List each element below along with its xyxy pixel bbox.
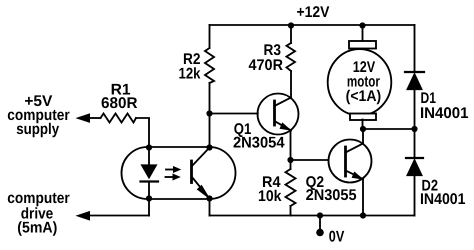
resistor R4	[286, 169, 296, 206]
wire R2 top lead	[209, 25, 211, 48]
opto phototransistor	[190, 161, 193, 183]
resistor R3	[287, 43, 296, 71]
wire R3 top lead	[290, 25, 292, 43]
wire R2 bottom to optocoupler collector	[209, 83, 211, 148]
svg-text:680R: 680R	[101, 95, 138, 112]
wire 0V terminal stub	[319, 216, 321, 232]
node 0V terminal	[316, 229, 324, 237]
node Q2 emitter on 0V rail	[360, 212, 366, 218]
wire diode node down to D2	[414, 129, 416, 158]
wire Q2 base	[291, 159, 329, 161]
LED D3	[148, 148, 150, 166]
motor M1 top brush	[349, 41, 376, 49]
wire Q2 emitter down	[362, 179, 364, 216]
wire R3 bottom to Q1 collector	[290, 71, 292, 98]
node opto collector on body	[206, 144, 212, 150]
motor M1 bottom brush	[350, 114, 376, 121]
node motor bottom junction	[360, 126, 366, 132]
wire Q1 emitter down	[290, 131, 292, 161]
svg-text:10k: 10k	[258, 188, 282, 205]
light arrow upper	[166, 169, 174, 171]
wire R4 top lead	[290, 160, 292, 169]
resistor R1	[101, 114, 137, 123]
svg-text:(5mA): (5mA)	[17, 220, 57, 237]
svg-text:supply: supply	[16, 121, 59, 138]
node D1/D2 junction	[411, 126, 417, 132]
svg-text:IN4001: IN4001	[420, 105, 469, 122]
svg-text:470R: 470R	[249, 57, 284, 74]
node LED anode on body	[146, 144, 152, 150]
svg-text:0V: 0V	[329, 229, 345, 246]
arrow +5V supply	[77, 114, 90, 122]
wire Q2 collector up	[362, 129, 364, 144]
wire computer drive line	[90, 215, 149, 217]
svg-text:2N3055: 2N3055	[306, 187, 357, 204]
optocoupler IC1 body	[122, 147, 236, 199]
node motor top junction	[359, 22, 365, 28]
wire LED cathode down	[148, 199, 150, 216]
wire R1 left lead	[90, 117, 101, 119]
svg-text:+12V: +12V	[297, 4, 331, 21]
node LED cathode on body	[146, 195, 152, 201]
light arrow lower	[166, 176, 174, 178]
diode D1	[405, 71, 424, 73]
wire 0V rail	[210, 215, 415, 217]
svg-text:(<1A): (<1A)	[346, 88, 382, 105]
transistor Q2	[329, 140, 372, 183]
node 0V stub junction	[317, 212, 323, 218]
wire motor bottom to diode node	[363, 128, 415, 130]
wire Q1 base	[210, 113, 258, 115]
wire opto emitter down to rail	[209, 199, 211, 216]
wire top +12V rail	[210, 24, 415, 26]
svg-text:12k: 12k	[179, 65, 201, 82]
node junction R2/opto/Q1-base	[206, 110, 212, 116]
node opto emitter on body	[206, 195, 212, 201]
wire R1 right lead	[136, 118, 149, 148]
motor M1 body	[328, 49, 392, 115]
wire R4 bottom lead	[290, 206, 292, 216]
node Q1 emitter / R4 / Q2 base	[287, 157, 293, 163]
transistor Q1	[258, 94, 299, 135]
svg-text:2N3054: 2N3054	[233, 134, 285, 151]
diode D2	[406, 157, 423, 159]
motor M1 top lead	[362, 25, 364, 41]
arrow computer drive	[77, 212, 90, 220]
svg-text:IN4001: IN4001	[420, 191, 466, 208]
resistor R2	[205, 48, 214, 83]
wire +12V rail down to D1	[414, 25, 416, 72]
wire motor bottom lead	[362, 120, 364, 130]
node R3 top junction	[288, 22, 294, 28]
